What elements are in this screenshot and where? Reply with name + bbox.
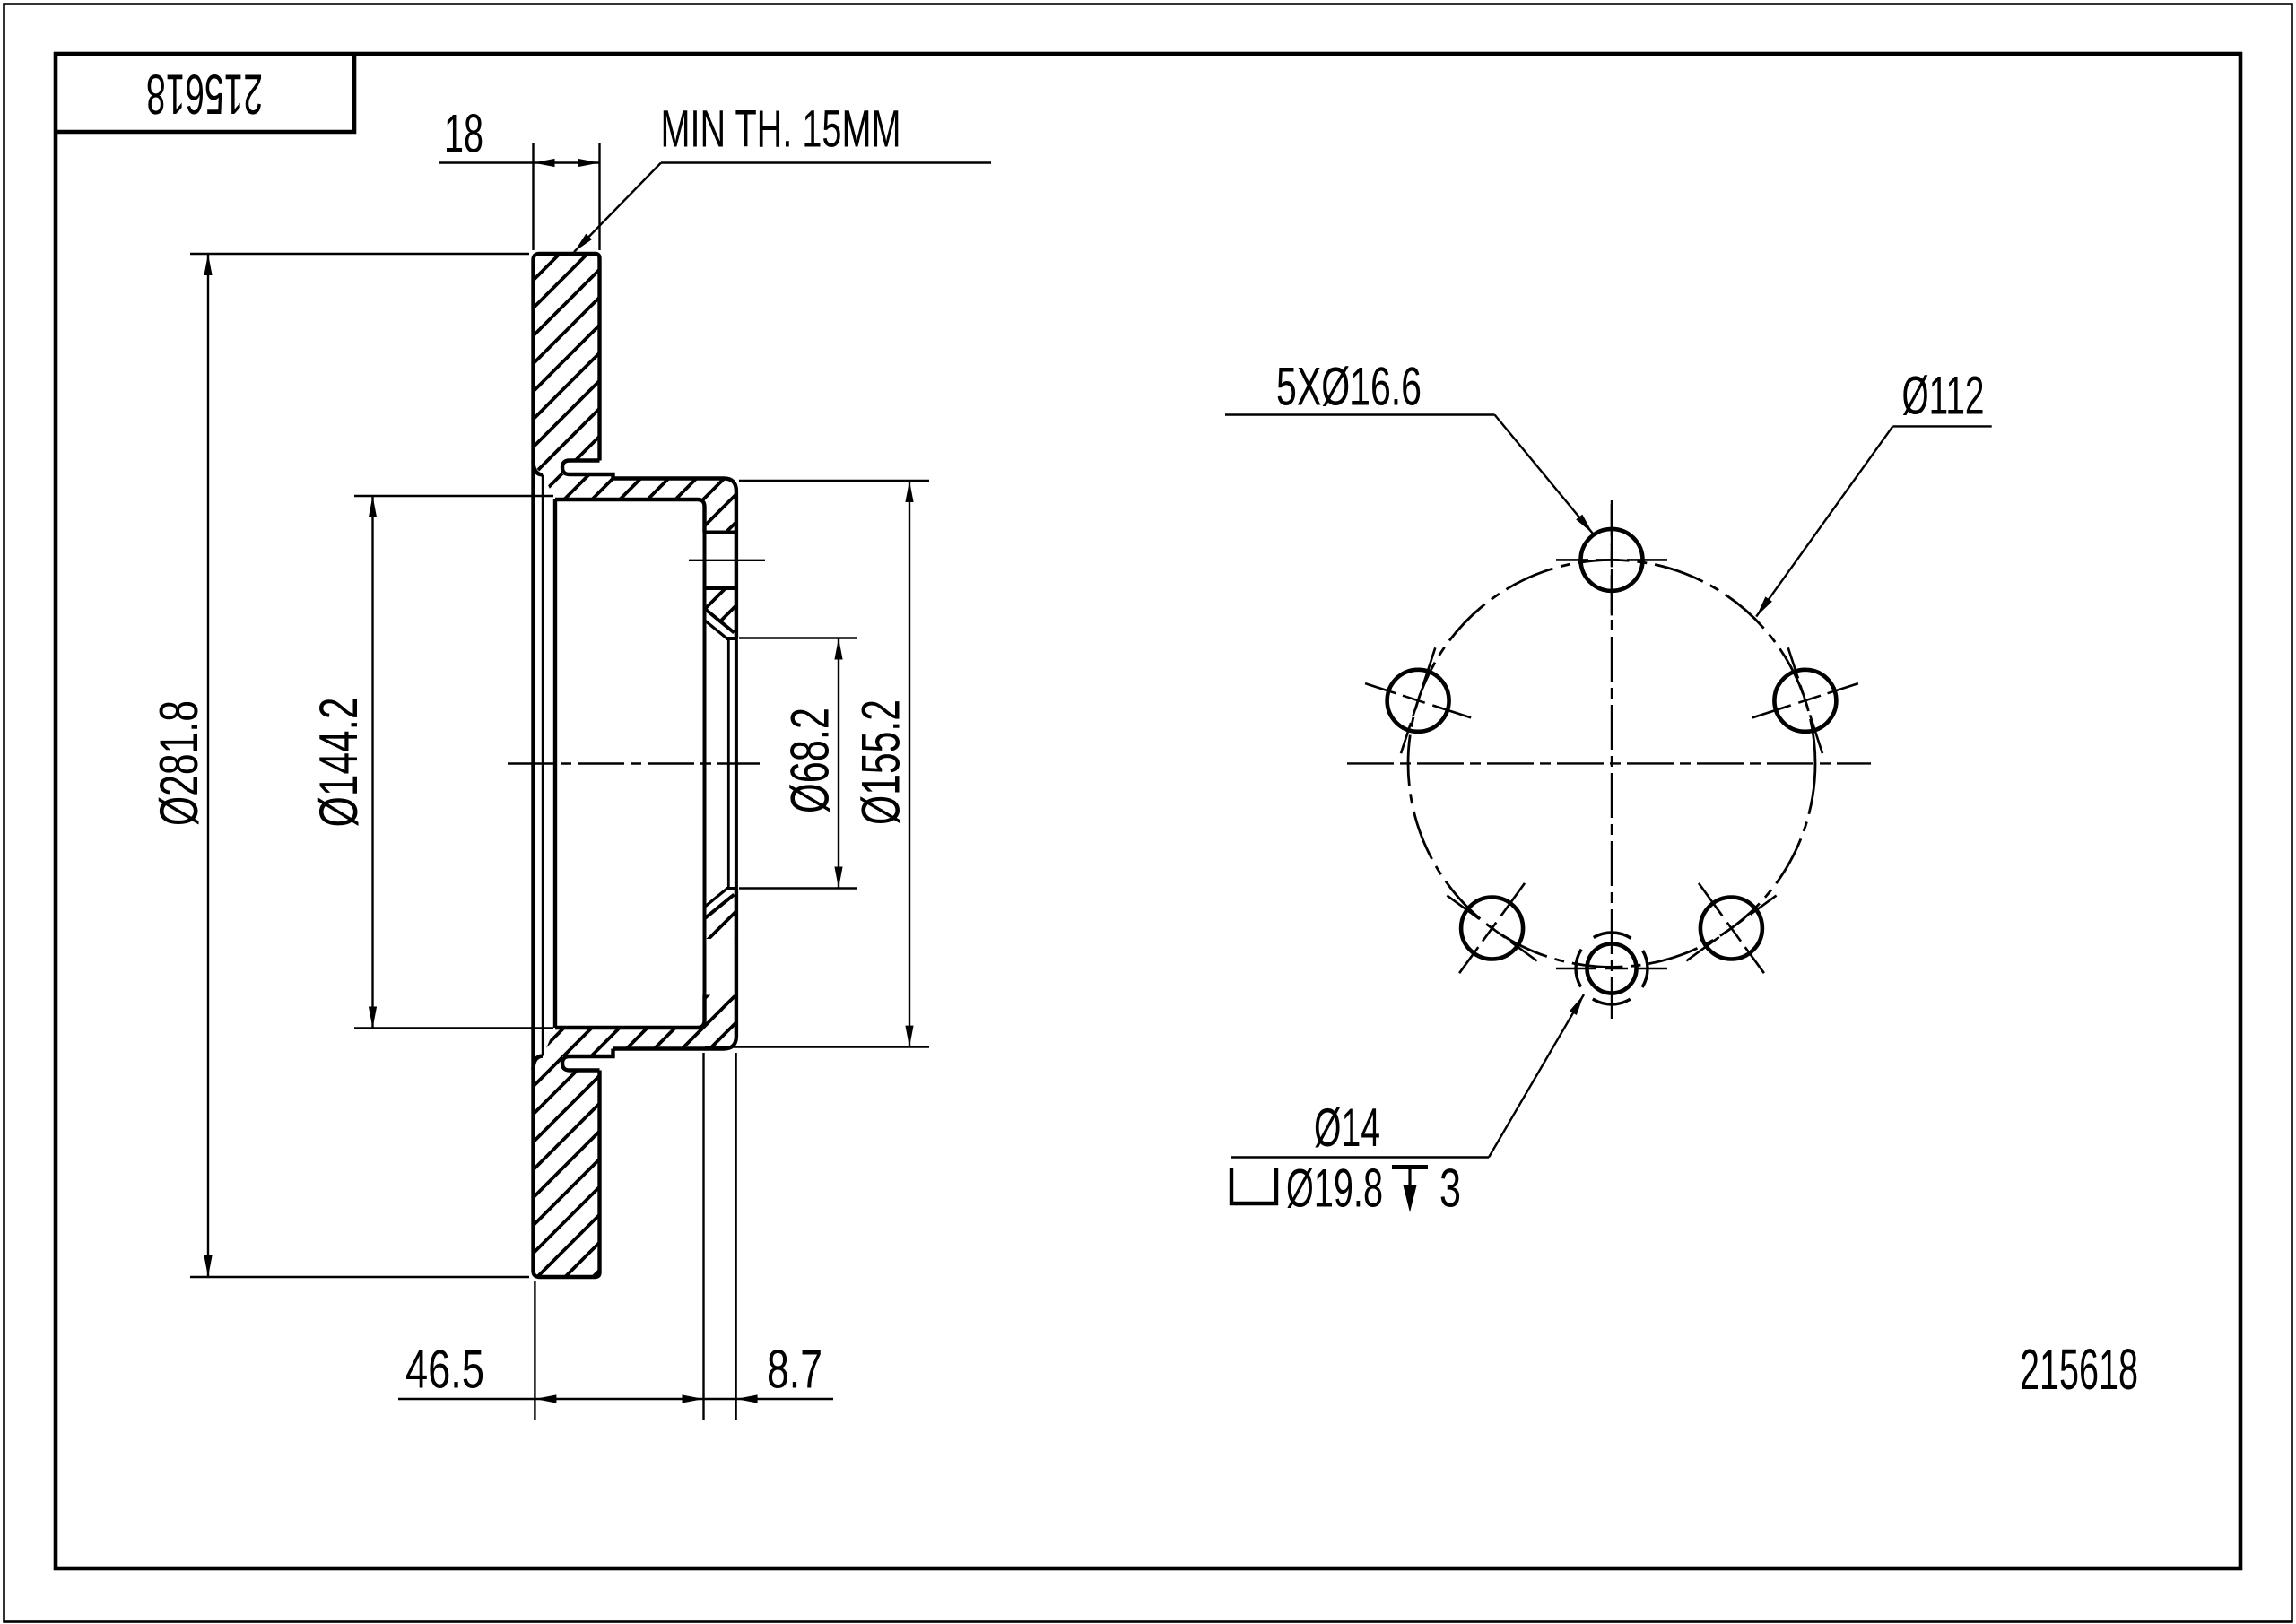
dimension Ø155.2: extension lines: [739, 480, 929, 482]
counterbore symbol: [1231, 1168, 1276, 1203]
leader Ø112: [1892, 425, 1991, 427]
flange inner surface + corner to barrel left face (lower): [555, 995, 705, 1029]
rim outline (outer braking band): [534, 254, 600, 1277]
left face step lower: [534, 1056, 544, 1071]
flange bottom surface + corner to barrel right face (lower): [613, 889, 736, 1049]
rim undercut notch lower: [562, 1049, 613, 1071]
left face step upper: [534, 461, 544, 475]
dimension Ø155.2: dimension line with arrows: [909, 481, 910, 1047]
front view: vertical centerline: [1611, 500, 1613, 1019]
dimension Ø281.8: extension lines: [190, 253, 529, 255]
svg-text:Ø19.8: Ø19.8: [1286, 1159, 1383, 1219]
bolt circle Ø112 (dash-dot circle): [1408, 560, 1815, 967]
hat web edge line (thick): [553, 499, 557, 1028]
bore bottom edge: [726, 887, 736, 890]
svg-text:3: 3: [1439, 1159, 1461, 1219]
svg-text:Ø144.2: Ø144.2: [309, 698, 369, 828]
svg-text:8.7: 8.7: [767, 1340, 822, 1400]
leader MIN TH. 15MM: [661, 161, 991, 163]
rim undercut notch upper: [562, 461, 613, 479]
title box top-left: [56, 54, 354, 132]
stud hole centerline tick: [689, 560, 765, 561]
svg-text:215618: 215618: [146, 63, 263, 126]
leader Ø14: [1231, 1156, 1489, 1158]
counterbore Ø19.8 hidden circle (dashed): [1576, 933, 1648, 1004]
dimension 18: dimension line: [439, 161, 600, 163]
stud hole 1 (top, 90deg) with centerline ticks: [1556, 504, 1667, 615]
dimension 46.5 / 8.7: extension lines: [534, 1281, 535, 1420]
hat web silhouette line (thin): [542, 475, 544, 1056]
dimension Ø68.2: dimension line with arrows: [838, 638, 839, 889]
dimension Ø281.8: dimension line with arrows: [207, 254, 209, 1277]
leader 5XØ16.6: [1225, 413, 1495, 415]
svg-text:Ø68.2: Ø68.2: [780, 708, 840, 813]
svg-text:46.5: 46.5: [405, 1340, 484, 1400]
svg-text:215618: 215618: [2020, 1337, 2138, 1402]
bottom hole horizontal tick: [1556, 968, 1596, 970]
bore chamfer lower (inner line): [705, 889, 727, 907]
stud hole 5 (lower right, 306deg): [1686, 883, 1776, 973]
depth symbol (bar + down arrow): [1392, 1165, 1428, 1169]
bore chamfer upper (inner line): [705, 621, 727, 638]
svg-text:Ø281.8: Ø281.8: [149, 700, 209, 826]
wheel stud hole window upper: bottom edge: [705, 586, 736, 590]
stud hole 4 (lower left, 234deg): [1447, 883, 1536, 973]
barrel right face through bore region: [735, 638, 738, 889]
stud hole 2 (upper right, 18deg): [1752, 647, 1858, 753]
svg-text:Ø14: Ø14: [1314, 1098, 1380, 1158]
flange inner surface + corner to barrel left face (upper): [555, 499, 705, 533]
svg-text:18: 18: [444, 104, 483, 164]
dimension Ø144.2: extension lines: [354, 495, 553, 497]
dimension 8.7: arrow (outside, pointing left): [736, 1394, 758, 1403]
svg-text:MIN TH. 15MM: MIN TH. 15MM: [661, 100, 901, 159]
stud hole 3 (upper left, 162deg): [1365, 647, 1471, 753]
left view: disc axis centerline: [508, 762, 760, 764]
hatched section: hat flange lower band: [543, 995, 736, 1057]
svg-text:Ø155.2: Ø155.2: [851, 699, 911, 825]
flange top surface + corner to barrel right face (upper): [613, 479, 736, 639]
wheel stud hole window upper: top edge: [705, 531, 736, 534]
hatched section: hat flange upper band: [543, 474, 736, 533]
svg-text:Ø112: Ø112: [1902, 366, 1985, 426]
hatched section: hub barrel upper (below stud hole to bore chamfer): [705, 588, 736, 637]
dimension Ø68.2: extension lines: [739, 637, 857, 638]
bottom hole Ø14 (at 270deg): [1587, 944, 1637, 994]
front view: horizontal centerline: [1347, 762, 1871, 764]
hatched section: hub barrel lower (above stud hole to bore chamfer): [705, 890, 736, 939]
bore silhouette line (thin): [727, 638, 730, 889]
dimension Ø144.2: dimension line with arrows: [371, 496, 373, 1029]
bore top edge: [726, 637, 736, 640]
bore chamfer upper (outer line): [705, 609, 735, 633]
dimension 18 (rim thickness): extension lines: [532, 143, 534, 250]
hatched section: brake rim lower half: [534, 1056, 600, 1277]
barrel left face through bore region: [703, 533, 707, 995]
bore chamfer lower (outer line): [705, 895, 735, 919]
svg-text:5XØ16.6: 5XØ16.6: [1276, 357, 1422, 417]
hatched section: brake rim upper half: [534, 254, 600, 474]
dimension 46.5: dimension line: [398, 1398, 833, 1400]
